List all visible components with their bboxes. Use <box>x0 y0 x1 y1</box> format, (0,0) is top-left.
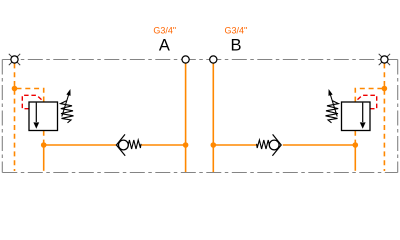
wire B-side main line left segment <box>213 144 257 146</box>
pilot drain RV2 bottom <box>354 131 356 143</box>
wire port B vertical line <box>212 63 214 172</box>
wire A-side main line right segment <box>141 144 185 146</box>
node X pilot junction <box>12 86 18 92</box>
svg-text:A: A <box>159 36 170 54</box>
port A connection circle <box>182 56 189 63</box>
pilot line to RV1 top <box>17 89 44 102</box>
wire port A vertical line <box>185 63 187 172</box>
node RV2 outlet junction <box>353 142 359 148</box>
check valve CV2 (B side) <box>257 134 282 155</box>
pilot line to RV2 top <box>355 89 382 102</box>
wire RV2 tank drop line <box>354 145 356 171</box>
pressure relief valve RV1 (pilot operated, adjustable) <box>29 89 74 131</box>
node B junction <box>211 142 217 148</box>
pressure relief valve RV2 (pilot operated, adjustable) <box>326 89 371 131</box>
pilot line X-port vertical (left) <box>14 63 16 171</box>
port Y (right vent, crossed circle) <box>379 54 390 65</box>
pilot line Y-port vertical (right) <box>383 63 385 171</box>
node Y pilot junction <box>382 86 388 92</box>
svg-text:B: B <box>230 36 241 54</box>
pilot drain RV1 bottom <box>43 131 45 143</box>
svg-text:G3/4": G3/4" <box>224 25 247 35</box>
svg-text:G3/4": G3/4" <box>153 25 176 35</box>
wire RV1 tank drop line <box>43 145 45 171</box>
pilot line (red) RV1 <box>22 95 43 108</box>
manifold outline top edge (chain line) <box>2 59 397 61</box>
manifold outline right edge (chain line) <box>397 60 399 173</box>
node RV1 outlet junction <box>41 142 47 148</box>
port B connection circle <box>210 56 217 63</box>
manifold outline left edge (chain line) <box>1 60 3 173</box>
wire B-side main line right segment <box>283 144 356 146</box>
check valve CV1 (A side) <box>116 134 141 155</box>
manifold outline bottom edge (chain line) <box>2 172 397 174</box>
node A junction <box>183 142 189 148</box>
pilot line (red) RV2 <box>356 95 377 108</box>
port X (left vent, crossed circle) <box>9 54 20 65</box>
wire A-side main line left segment <box>44 144 117 146</box>
